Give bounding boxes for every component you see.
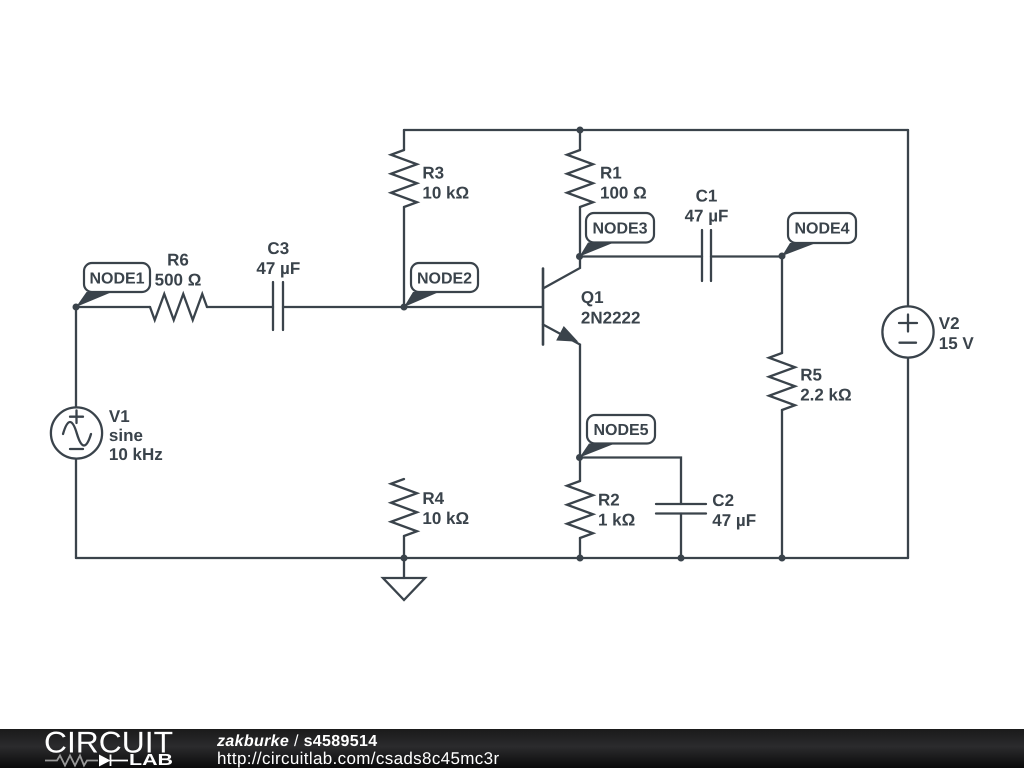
- wire NODE5 to R2: [579, 458, 581, 482]
- svg-text:R6: R6: [167, 251, 189, 270]
- node NODE2 dot: [401, 304, 408, 311]
- svg-text:47 µF: 47 µF: [685, 207, 729, 226]
- wire left rail top: [75, 307, 77, 407]
- node flag NODE2: [404, 263, 478, 307]
- svg-text:V1: V1: [109, 407, 130, 426]
- wire NODE4 to R5: [781, 257, 783, 354]
- node NODE3 dot: [576, 253, 583, 260]
- V2 plus sign: [899, 315, 917, 332]
- node flag NODE5: [580, 415, 656, 458]
- svg-text:10 kΩ: 10 kΩ: [422, 184, 469, 203]
- wire C3 to NODE2: [283, 306, 404, 308]
- svg-text:NODE2: NODE2: [417, 271, 472, 288]
- wire R5 bottom lead: [781, 410, 783, 558]
- junction dot C2 bottom: [678, 555, 685, 562]
- svg-text:1 kΩ: 1 kΩ: [598, 511, 635, 530]
- svg-text:http://circuitlab.com/csads8c4: http://circuitlab.com/csads8c45mc3r: [217, 749, 499, 768]
- svg-text:R1: R1: [600, 164, 622, 183]
- resistor R3: [391, 150, 417, 207]
- resistor R1: [567, 150, 593, 207]
- node junction dot top rail R1: [577, 127, 584, 134]
- svg-text:500 Ω: 500 Ω: [155, 271, 202, 290]
- wire R3 top lead: [403, 130, 405, 150]
- transistor Q1 base bar: [542, 269, 545, 345]
- svg-text:2.2 kΩ: 2.2 kΩ: [800, 386, 851, 405]
- wire NODE1 to R6: [76, 306, 150, 308]
- node flag NODE4: [782, 213, 856, 256]
- wire right rail bottom: [907, 358, 909, 558]
- wire NODE2 to Q1 base: [404, 306, 542, 308]
- wire C2 bottom lead: [680, 514, 682, 559]
- svg-text:R5: R5: [800, 366, 822, 385]
- transistor Q1 collector: [543, 257, 580, 289]
- V1 minus sign: [70, 448, 83, 450]
- svg-text:R4: R4: [422, 489, 444, 508]
- svg-text:sine: sine: [109, 426, 143, 445]
- wire top rail: [404, 129, 908, 131]
- resistor R5: [769, 353, 795, 410]
- resistor R4: [391, 479, 417, 558]
- svg-text:NODE4: NODE4: [794, 221, 849, 238]
- node NODE4 dot: [779, 253, 786, 260]
- junction dot R5 bottom: [779, 555, 786, 562]
- capacitor C3: [273, 282, 283, 330]
- svg-text:NODE5: NODE5: [593, 422, 648, 439]
- svg-text:LAB: LAB: [129, 752, 173, 768]
- wire left rail bottom: [75, 459, 77, 558]
- node NODE1 dot: [73, 304, 80, 311]
- wire right rail top: [907, 130, 909, 306]
- svg-text:C1: C1: [696, 187, 718, 206]
- svg-text:Q1: Q1: [581, 288, 604, 307]
- capacitor C2: [656, 504, 706, 514]
- resistor R6: [150, 294, 207, 320]
- ground: [383, 578, 425, 600]
- voltage source V2 circle: [882, 306, 933, 357]
- svg-text:10 kHz: 10 kHz: [109, 445, 163, 464]
- svg-text:47 µF: 47 µF: [712, 511, 756, 530]
- transistor Q1 emitter arrow: [558, 328, 576, 341]
- svg-text:NODE1: NODE1: [89, 271, 144, 288]
- transistor Q1 emitter: [543, 325, 580, 458]
- wire bottom rail: [76, 557, 908, 559]
- V1 sine wave: [63, 422, 91, 446]
- node NODE5 dot: [576, 454, 583, 461]
- junction dot ground: [401, 555, 408, 562]
- wire R6 to C3: [207, 306, 273, 308]
- svg-text:R3: R3: [422, 164, 444, 183]
- wire R1 bottom lead to NODE3: [579, 207, 581, 257]
- svg-text:10 kΩ: 10 kΩ: [422, 509, 469, 528]
- logo resistor-diode symbol: [45, 755, 128, 767]
- svg-text:NODE3: NODE3: [592, 221, 647, 238]
- resistor R2: [567, 481, 593, 538]
- svg-text:R2: R2: [598, 491, 620, 510]
- wire R2 bottom lead: [579, 538, 581, 558]
- svg-text:C2: C2: [712, 491, 734, 510]
- voltage source V1 circle: [51, 407, 102, 458]
- svg-text:15 V: 15 V: [939, 334, 975, 353]
- wire NODE5 to C2: [580, 458, 681, 505]
- node flag NODE3: [580, 213, 655, 257]
- footer bar: [0, 729, 1024, 768]
- svg-text:zakburke / s4589514: zakburke / s4589514: [216, 733, 378, 750]
- junction dot R2 bottom: [577, 555, 584, 562]
- svg-text:47 µF: 47 µF: [256, 259, 300, 278]
- capacitor C1: [702, 230, 711, 281]
- wire ground stub: [403, 558, 405, 578]
- svg-text:2N2222: 2N2222: [581, 309, 641, 328]
- wire R3 bottom lead to NODE2: [403, 207, 405, 307]
- logo diode triangle: [99, 755, 111, 767]
- wire NODE3 to C1: [580, 255, 702, 257]
- V1 plus sign: [70, 410, 83, 423]
- wire R4 bottom lead: [403, 536, 405, 558]
- svg-text:C3: C3: [267, 239, 289, 258]
- V2 minus sign: [900, 342, 917, 344]
- svg-text:V2: V2: [939, 314, 960, 333]
- svg-text:100 Ω: 100 Ω: [600, 184, 647, 203]
- node flag NODE1: [76, 263, 150, 307]
- wire R1 top lead: [579, 130, 581, 150]
- wire C1 to NODE4: [711, 255, 782, 257]
